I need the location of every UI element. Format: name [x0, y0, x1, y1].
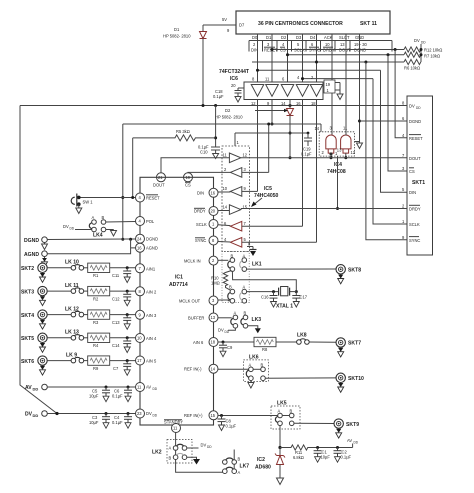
IC1 AD7714 box	[140, 177, 214, 425]
svg-text:14: 14	[211, 366, 216, 371]
wire LK6 B to SKT10	[265, 377, 336, 379]
wire LK1 A to SKT8	[247, 268, 336, 270]
svg-text:14: 14	[315, 126, 320, 131]
svg-text:LK3: LK3	[252, 317, 262, 323]
svg-text:R1: R1	[93, 273, 99, 278]
node AVDD pin11	[136, 383, 158, 392]
wire LK5 B to SKT9	[294, 422, 334, 424]
svg-text:B: B	[238, 457, 241, 462]
socket SKT9	[334, 419, 359, 438]
wire MCLKOUT to lower link	[228, 299, 230, 302]
wire pin D0 DIN vertical	[257, 34, 259, 84]
svg-text:36 PIN CENTRONICS CONNECTOR: 36 PIN CENTRONICS CONNECTOR	[258, 21, 343, 27]
svg-text:LK4: LK4	[93, 233, 103, 239]
link LK11	[47, 283, 83, 294]
svg-text:R8: R8	[262, 347, 268, 352]
resistor R12 10k	[404, 47, 442, 53]
wire pin D2 CS vertical	[287, 34, 289, 84]
link lower pair	[228, 285, 247, 304]
node RESET pin4	[136, 193, 161, 202]
cap C10 0.1uF with resistor R5	[198, 106, 220, 159]
cap C1 10uF	[314, 448, 331, 463]
wire DOUT long line to SKT1 pin7	[241, 157, 407, 159]
cap C8 on REF IN(+)	[218, 416, 237, 431]
svg-text:HP 5082- 2810: HP 5082- 2810	[163, 34, 191, 39]
svg-text:IC4: IC4	[334, 162, 342, 168]
connector SKT1	[402, 96, 433, 255]
svg-text:13: 13	[337, 148, 342, 153]
wire LK2 B to ground	[187, 457, 200, 464]
wire RESET net horizontal	[271, 48, 405, 51]
svg-text:0.1µF: 0.1µF	[112, 420, 123, 425]
IC5 buffer6 SYNC red	[224, 237, 247, 247]
svg-text:10: 10	[137, 336, 142, 341]
wire stair RESET to SKT1	[395, 50, 407, 138]
node DGND pin24	[136, 234, 159, 243]
link LK5 dashed box	[249, 401, 301, 430]
IC4 ground stub	[354, 141, 359, 143]
svg-text:AIN 6: AIN 6	[193, 340, 204, 345]
svg-text:DV: DV	[409, 104, 415, 109]
svg-text:SCLK: SCLK	[196, 222, 207, 227]
node POL pin4	[136, 217, 155, 226]
node DVDD pin23	[136, 409, 158, 418]
svg-text:DD: DD	[70, 227, 75, 231]
link LK10	[47, 260, 83, 271]
link LK1	[228, 254, 262, 272]
link LK6 dashed box	[243, 355, 268, 382]
svg-text:74FCT3244T: 74FCT3244T	[219, 69, 250, 75]
wire DIN net horizontal	[256, 69, 381, 72]
svg-text:SKT2: SKT2	[21, 266, 34, 272]
wire IC6 out12 down to buffer3 input	[242, 100, 258, 192]
svg-text:10µF: 10µF	[89, 420, 99, 425]
svg-text:A: A	[169, 446, 172, 451]
power DV_DD pullup stub	[414, 38, 426, 62]
svg-text:11: 11	[343, 126, 348, 131]
svg-text:11: 11	[137, 385, 142, 390]
wire LK2 A to DVDD stub	[187, 443, 213, 450]
svg-text:SYNC: SYNC	[409, 238, 420, 243]
ground under LK6 A	[248, 381, 254, 389]
svg-text:AIN 3: AIN 3	[146, 313, 157, 318]
svg-text:R3: R3	[93, 320, 99, 325]
svg-text:DD: DD	[153, 414, 158, 418]
svg-text:AGND: AGND	[146, 246, 158, 251]
svg-text:0.1µF: 0.1µF	[213, 94, 224, 99]
svg-text:C7: C7	[113, 366, 119, 371]
power rail DVDD horizontal	[20, 104, 407, 107]
svg-text:MCLK OUT: MCLK OUT	[179, 298, 201, 303]
IC5 buffer5 SCLK red	[224, 221, 247, 231]
wire IC6 out16 down to buffer5 input	[242, 100, 303, 227]
switch SW1	[71, 194, 93, 214]
svg-text:SCLK: SCLK	[409, 222, 420, 227]
svg-text:C14: C14	[112, 343, 120, 348]
node BUFFER pin13	[188, 313, 232, 322]
terminal DGND	[24, 237, 48, 250]
wire DGND terminal to pin	[47, 238, 135, 241]
svg-text:17: 17	[137, 358, 142, 363]
svg-text:B: B	[244, 310, 247, 315]
svg-text:D3: D3	[296, 35, 302, 40]
wire DVDD branch y133 to IC5 pin1 and C19	[235, 133, 308, 146]
svg-text:MCLK IN: MCLK IN	[184, 258, 201, 263]
svg-text:C12: C12	[112, 296, 120, 301]
node REF IN(+) pin15	[184, 411, 218, 420]
svg-text:R6 10kΩ: R6 10kΩ	[404, 66, 420, 71]
svg-text:DV: DV	[146, 411, 152, 416]
svg-text:AIN 2: AIN 2	[146, 289, 157, 294]
svg-text:16: 16	[137, 245, 142, 250]
svg-text:18: 18	[211, 340, 216, 345]
IC4 pin14 to y124	[320, 124, 322, 132]
svg-text:DGND: DGND	[146, 237, 158, 242]
svg-text:D4: D4	[310, 35, 316, 40]
IC6 output enable pins 19 1	[324, 80, 343, 100]
IC5 buffer3 DIN	[223, 186, 247, 196]
resistor R11 6.8k	[280, 445, 318, 460]
node REF IN(-) pin14	[184, 364, 249, 373]
svg-text:LK6: LK6	[249, 355, 259, 361]
svg-text:B: B	[169, 456, 172, 461]
link LK9	[47, 352, 83, 363]
node DIN pin16	[197, 188, 230, 197]
svg-text:6.8kΩ: 6.8kΩ	[293, 455, 304, 460]
svg-text:16: 16	[211, 191, 216, 196]
svg-text:DV: DV	[218, 328, 224, 333]
wire LK3 B ground	[248, 326, 261, 334]
wire AIN6 row	[218, 341, 254, 344]
svg-text:DD: DD	[33, 413, 39, 418]
buffer IC5 74HC4050 dashed box	[222, 146, 279, 252]
svg-text:13: 13	[211, 315, 216, 320]
resistor R3	[84, 310, 136, 325]
svg-text:10µF: 10µF	[321, 455, 331, 460]
svg-text:0.1µF: 0.1µF	[112, 394, 123, 399]
svg-text:REF IN(-): REF IN(-)	[184, 367, 202, 372]
svg-text:XTAL 1: XTAL 1	[276, 304, 293, 310]
svg-text:SKT 11: SKT 11	[360, 21, 377, 27]
link LK3	[231, 310, 261, 328]
node DOUT pin21	[153, 173, 166, 188]
IC6 pin 20 and cap C18	[213, 83, 244, 102]
buffer IC6 74FCT3244T	[219, 69, 323, 106]
svg-text:LK8: LK8	[297, 333, 307, 339]
svg-text:D1: D1	[174, 27, 180, 32]
svg-text:5V: 5V	[222, 17, 227, 22]
svg-text:D1: D1	[266, 35, 272, 40]
node MCLK IN pin2	[184, 256, 228, 265]
resistor R1	[84, 263, 136, 278]
wire pin D1 RESET vertical	[271, 34, 273, 84]
svg-text:DOUT: DOUT	[153, 183, 165, 188]
svg-text:DRDY: DRDY	[194, 209, 206, 214]
wire pin D4 SYNC vertical	[316, 34, 318, 84]
svg-text:A: A	[238, 470, 241, 475]
svg-text:AV: AV	[146, 385, 151, 390]
cap C4 0.1uF	[112, 414, 132, 429]
socket SKT4	[21, 310, 47, 329]
cap C14	[112, 336, 131, 352]
svg-text:0.1µF: 0.1µF	[341, 455, 352, 460]
svg-text:19 - 30: 19 - 30	[354, 42, 367, 47]
svg-text:C13: C13	[112, 320, 120, 325]
svg-text:AV: AV	[25, 385, 32, 391]
svg-text:SKT4: SKT4	[21, 313, 34, 319]
svg-text:SKT9: SKT9	[346, 422, 359, 428]
cap C17	[292, 292, 307, 307]
dotted box around clock links	[222, 252, 249, 303]
node AIN2 pin8	[136, 287, 157, 296]
wire LK3 DVDD stub	[218, 328, 235, 335]
link LK7	[223, 450, 250, 476]
svg-text:IC5: IC5	[264, 186, 272, 192]
link LK4	[63, 215, 136, 239]
wire xtal top branch from LK1 B	[232, 271, 296, 290]
wire AGND terminal to pin	[47, 239, 135, 254]
IC5 buffer2 CS	[224, 167, 247, 177]
svg-text:20: 20	[231, 83, 236, 88]
wire SW1 to RESET	[78, 196, 136, 199]
node AIN1 pin7	[136, 264, 156, 273]
cap C3 10uF	[89, 414, 110, 429]
svg-text:15: 15	[211, 413, 216, 418]
socket SKT7	[336, 338, 361, 357]
svg-text:R7 10kΩ: R7 10kΩ	[424, 54, 440, 59]
link LK12	[47, 306, 83, 317]
diode D2 HP5082-2810	[215, 100, 294, 160]
cap C6 0.1uF	[112, 387, 132, 402]
svg-text:24: 24	[137, 236, 142, 241]
svg-text:10: 10	[223, 186, 228, 191]
resistor R6 10k	[404, 59, 421, 70]
svg-text:DV: DV	[414, 38, 420, 43]
resistor R5 3k	[133, 129, 216, 141]
cap C13	[112, 313, 131, 329]
IC5 buffer4 DRDY	[223, 205, 248, 215]
wire DVDD left edge down to DVDD row	[20, 106, 57, 414]
IC5 buffer1 DOUT	[223, 153, 248, 163]
IC4 gate output stubs to DOUT and DRDY wires	[330, 153, 348, 211]
svg-text:R12 10kΩ: R12 10kΩ	[424, 48, 442, 53]
wire reference node to AVDD stub	[316, 438, 359, 449]
wire pin GND DGND vertical	[358, 34, 361, 143]
svg-text:R5 3kΩ: R5 3kΩ	[176, 129, 190, 134]
terminal AVDD	[25, 384, 47, 391]
wire 5V to connector	[203, 17, 236, 33]
wire AVDD row	[47, 386, 135, 389]
svg-text:DV: DV	[201, 443, 207, 448]
svg-text:B: B	[229, 285, 232, 290]
resistor R7 10k	[404, 52, 440, 58]
terminal DVDD	[25, 411, 47, 418]
svg-text:DIN: DIN	[197, 191, 204, 196]
socket SKT10	[336, 373, 364, 392]
svg-text:RESET: RESET	[146, 196, 160, 201]
svg-text:AIN1: AIN1	[146, 266, 156, 271]
svg-text:LK7: LK7	[240, 464, 250, 470]
link LK2 dashed box	[152, 440, 192, 464]
svg-text:CS: CS	[185, 183, 191, 188]
svg-text:AD7714: AD7714	[169, 282, 188, 288]
svg-text:SKT6: SKT6	[21, 359, 34, 365]
reference IC2 AD680	[255, 448, 285, 485]
svg-text:DGND: DGND	[409, 119, 421, 124]
svg-text:IC2: IC2	[257, 457, 265, 463]
svg-text:11: 11	[173, 426, 178, 431]
wire xtal bottom branch	[247, 291, 279, 293]
svg-text:IC1: IC1	[175, 275, 183, 281]
connector pin grid labels	[249, 35, 392, 53]
resistor R10 1M vertical	[211, 271, 232, 291]
svg-text:LK5: LK5	[277, 401, 287, 407]
svg-text:10µF: 10µF	[89, 394, 99, 399]
svg-text:12: 12	[351, 150, 356, 155]
wire pin SLCT vertical to IC4 gate2	[345, 34, 347, 136]
resistor R8	[254, 337, 297, 352]
wire RESET branch vertical	[132, 138, 134, 198]
wire stair CS to SKT1	[388, 55, 407, 171]
svg-text:11: 11	[265, 77, 270, 82]
svg-text:23: 23	[137, 411, 142, 416]
svg-text:DIN: DIN	[409, 190, 416, 195]
svg-text:DD: DD	[354, 441, 359, 445]
wire CS pin up to buffer2	[188, 171, 230, 173]
svg-text:SKT10: SKT10	[348, 376, 364, 382]
svg-text:DD: DD	[416, 106, 421, 110]
svg-text:CS: CS	[409, 169, 415, 174]
connector SKT11	[236, 11, 390, 34]
socket SKT5	[21, 333, 47, 352]
cap C9 on AIN6	[219, 342, 233, 357]
resistor R9	[84, 356, 136, 371]
wire LK5 A down to reference node	[278, 426, 281, 450]
wire stair SCLK to SKT1	[373, 79, 407, 224]
svg-text:DD: DD	[207, 445, 212, 449]
node SCLK pin1	[196, 220, 230, 229]
svg-text:1MΩ: 1MΩ	[211, 281, 220, 286]
cap C19 0.1uF	[301, 132, 312, 157]
IC5 pin8 ground	[247, 242, 257, 257]
node DRDY pin20	[194, 207, 229, 216]
wire DOUT pin up and right to buffer1	[161, 158, 229, 173]
svg-text:LK1: LK1	[252, 262, 262, 268]
diode D1 HP5082-2810	[163, 25, 207, 106]
svg-text:0.1µF: 0.1µF	[226, 424, 237, 429]
svg-text:D2: D2	[281, 35, 287, 40]
svg-text:13: 13	[340, 42, 345, 47]
wire STANDBY down to LK2	[175, 433, 177, 446]
socket SKT8	[336, 265, 361, 284]
svg-text:SKT8: SKT8	[348, 268, 361, 274]
svg-text:12: 12	[243, 153, 248, 158]
node AGND pin16	[136, 243, 158, 252]
node CS pin19	[184, 173, 193, 188]
svg-text:D2: D2	[225, 108, 231, 113]
svg-text:C16: C16	[261, 295, 269, 300]
cap C7	[113, 359, 131, 375]
svg-text:A: A	[234, 310, 237, 315]
node AIN3 pin9	[136, 310, 157, 319]
wire pin D3 SCLK vertical	[302, 34, 304, 84]
wire stair SYNC to SKT1	[366, 62, 407, 240]
node MCLK OUT pin3	[179, 296, 228, 305]
wire RESET from IC6 via y124	[121, 100, 321, 241]
svg-text:19: 19	[326, 82, 331, 87]
svg-text:POL: POL	[146, 219, 155, 224]
svg-text:AGND: AGND	[24, 252, 39, 258]
svg-text:SKT1: SKT1	[412, 180, 425, 186]
svg-text:D7: D7	[239, 23, 245, 28]
link LK8	[297, 333, 336, 345]
svg-text:C11: C11	[112, 273, 120, 278]
wire SCLK net horizontal	[301, 77, 373, 80]
wire CS buffer to vertical x268.7	[242, 123, 270, 173]
svg-text:10: 10	[325, 42, 330, 47]
svg-text:11: 11	[223, 153, 228, 158]
terminal AGND	[24, 251, 48, 267]
wire pin ACK vertical to IC4 gate1	[331, 34, 333, 136]
wire LK2 bottom to LK7	[176, 460, 223, 473]
svg-text:DD: DD	[153, 387, 158, 391]
wire stair DIN to SKT1	[381, 70, 408, 192]
svg-text:SLCT: SLCT	[339, 35, 350, 40]
socket SKT6	[21, 356, 47, 375]
svg-text:LK2: LK2	[152, 450, 162, 456]
node SYNC pin8	[195, 236, 230, 245]
svg-text:IC6: IC6	[230, 76, 238, 82]
wire DRDY long line to SKT1 pin2	[241, 208, 407, 210]
wire IC6 out18 down to buffer6 input	[242, 100, 317, 243]
wire CS net horizontal	[286, 53, 404, 56]
svg-text:SKT3: SKT3	[21, 289, 34, 295]
svg-text:R9: R9	[93, 366, 99, 371]
svg-text:SKT5: SKT5	[21, 336, 34, 342]
svg-text:AIN 5: AIN 5	[146, 359, 157, 364]
svg-text:74HC4050: 74HC4050	[254, 193, 279, 199]
cap C5 10uF	[89, 387, 110, 402]
wire REF IN(+) row	[218, 414, 249, 417]
svg-text:DRDY: DRDY	[409, 207, 421, 212]
link LK13	[47, 330, 83, 341]
svg-text:AV: AV	[347, 438, 352, 443]
resistor R4	[84, 333, 136, 348]
cap C2 0.1uF	[334, 448, 352, 463]
svg-text:SKT7: SKT7	[348, 341, 361, 347]
svg-text:SW 1: SW 1	[83, 200, 94, 205]
svg-text:BUFFER: BUFFER	[188, 315, 204, 320]
svg-text:C17: C17	[300, 295, 308, 300]
node AIN5 pin17	[136, 356, 157, 365]
wire DVDD row	[47, 412, 135, 415]
svg-text:RESET: RESET	[409, 136, 423, 141]
svg-text:ACK: ACK	[324, 35, 333, 40]
svg-text:DD: DD	[33, 387, 39, 392]
wire SYNC net horizontal	[252, 61, 404, 64]
svg-text:AD680: AD680	[255, 465, 271, 471]
node AIN4 pin10	[136, 334, 157, 343]
socket SKT2	[21, 263, 47, 282]
cap C11	[112, 266, 131, 282]
node AIN6 pin18	[193, 338, 218, 347]
svg-text:DOUT: DOUT	[409, 156, 421, 161]
ground arrow on DGND vertical	[357, 143, 363, 149]
svg-text:14: 14	[223, 205, 228, 210]
svg-text:R2: R2	[93, 296, 99, 301]
svg-text:DV: DV	[63, 224, 69, 229]
svg-text:HP 5082- 2810: HP 5082- 2810	[215, 115, 243, 120]
